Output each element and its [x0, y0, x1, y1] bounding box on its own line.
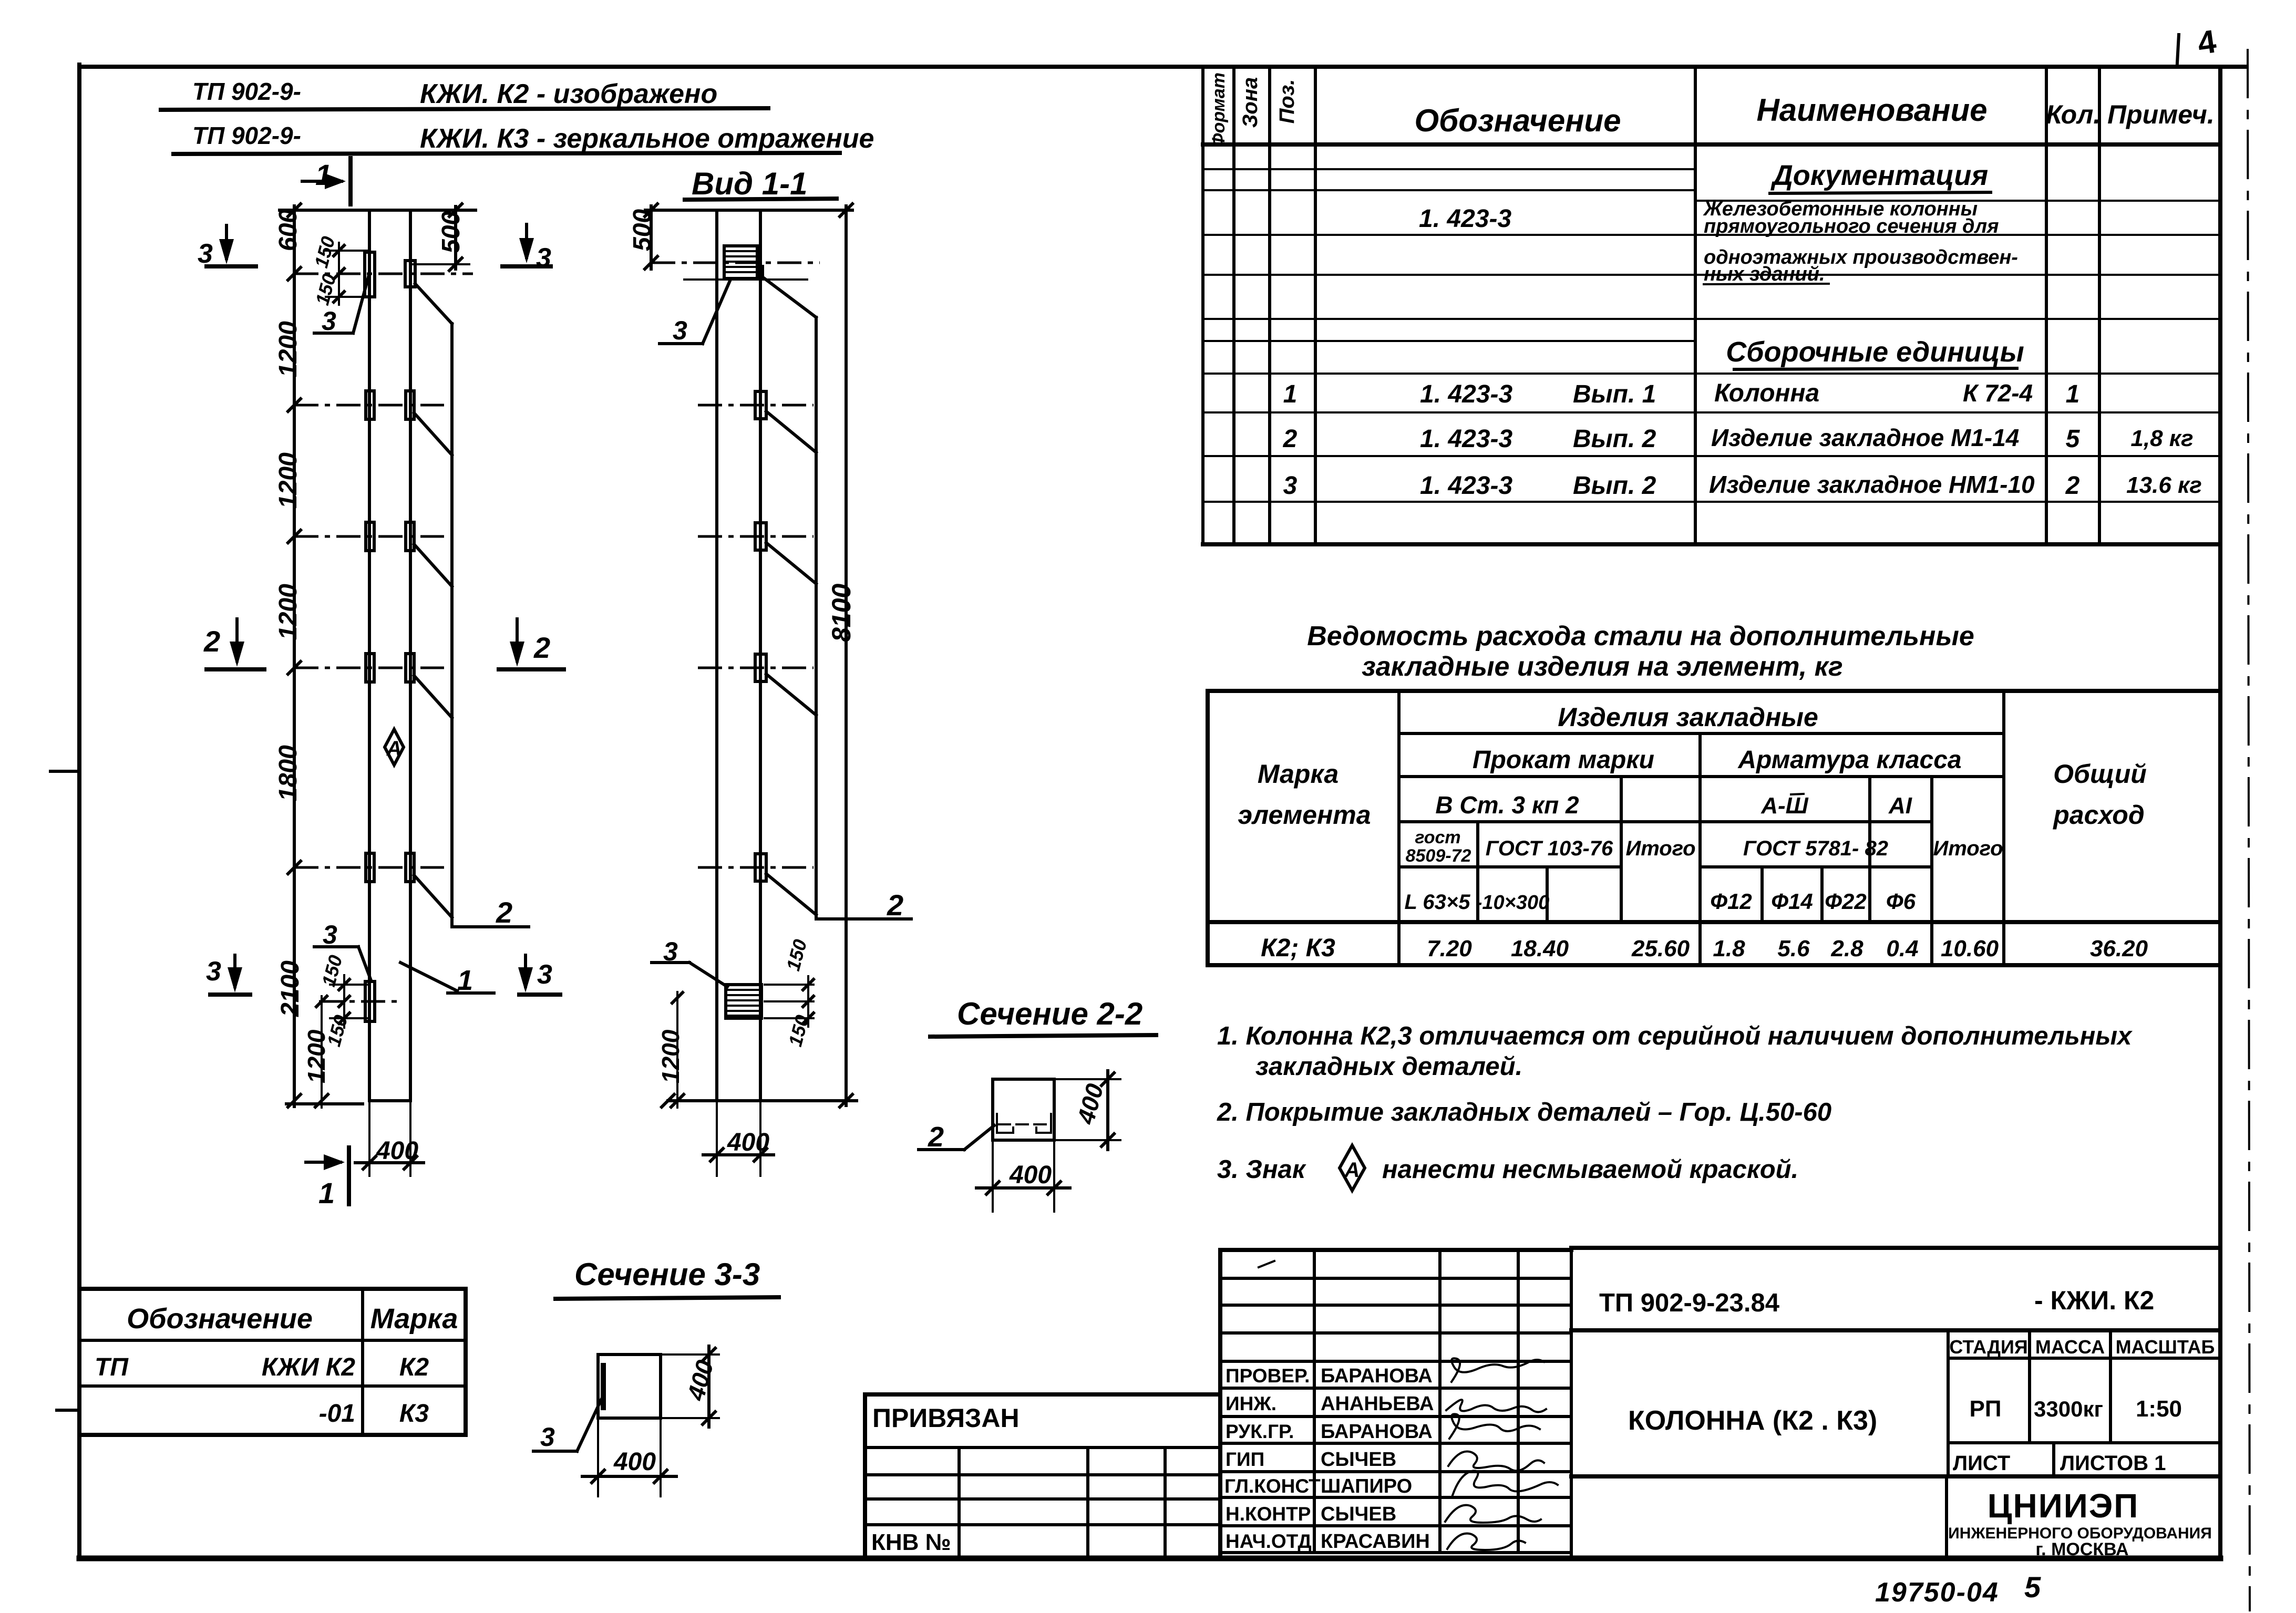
level line 1021 — [294, 535, 444, 538]
svg-text:ТП: ТП — [95, 1353, 129, 1381]
svg-text:400: 400 — [613, 1448, 656, 1476]
bottom dim line view2 — [668, 1099, 857, 1102]
svg-text:МАССА: МАССА — [2035, 1336, 2105, 1358]
400 dim view2 — [716, 1103, 718, 1176]
mid plates at 1271 — [366, 654, 374, 682]
signatures squiggles — [1445, 1358, 1558, 1550]
svg-text:1200: 1200 — [303, 1029, 330, 1083]
svg-text:18.40: 18.40 — [1511, 936, 1569, 961]
spec header bottom — [1203, 142, 2220, 147]
svg-text:Общий: Общий — [2053, 759, 2147, 789]
svg-text:5: 5 — [2024, 1570, 2041, 1604]
svg-text:ПРИВЯЗАН: ПРИВЯЗАН — [872, 1403, 1020, 1433]
svg-text:КОЛОННА (К2 . К3): КОЛОННА (К2 . К3) — [1628, 1405, 1877, 1436]
svg-text:КЖИ К2: КЖИ К2 — [262, 1353, 355, 1381]
privyazan grid horizontals — [865, 1475, 1220, 1525]
svg-text:10.60: 10.60 — [1941, 936, 1999, 961]
svg-text:Обозначение: Обозначение — [127, 1303, 313, 1335]
svg-text:СЫЧЕВ: СЫЧЕВ — [1321, 1503, 1396, 1525]
embedded plate top-left M1-14 — [365, 252, 375, 297]
svg-text:Ведомость расхода стали на: Ведомость расхода стали на дополнительны… — [1307, 621, 1974, 652]
section 2-2 square — [993, 1079, 1054, 1140]
svg-text:В Ст. 3 кп 2: В Ст. 3 кп 2 — [1435, 791, 1579, 819]
level line 1651 — [294, 866, 444, 869]
svg-text:3: 3 — [206, 956, 221, 987]
svg-text:элемента: элемента — [1238, 800, 1371, 830]
svg-text:ТП 902-9-23.84: ТП 902-9-23.84 — [1599, 1289, 1779, 1317]
bottom 400 dim sec2 — [992, 1142, 994, 1212]
svg-text:Обозначение: Обозначение — [1414, 103, 1621, 138]
right 500 dim line — [454, 206, 457, 269]
mid plates left col at 771 — [366, 391, 374, 419]
svg-text:АІ: АІ — [1888, 793, 1912, 819]
mid plates at 1651 — [366, 853, 374, 882]
svg-text:МАСШТАБ: МАСШТАБ — [2116, 1336, 2215, 1358]
svg-text:8100: 8100 — [827, 584, 856, 642]
svg-text:500: 500 — [437, 211, 465, 253]
dim 1200 bottom chain — [321, 996, 323, 1108]
svg-text:КРАСАВИН: КРАСАВИН — [1321, 1531, 1430, 1553]
svg-text:ЛИСТОВ 1: ЛИСТОВ 1 — [2060, 1452, 2166, 1475]
svg-text:600: 600 — [274, 209, 302, 251]
svg-text:СЫЧЕВ: СЫЧЕВ — [1321, 1449, 1396, 1471]
svg-text:Документация: Документация — [1770, 160, 1988, 191]
roles and names — [1224, 1365, 1434, 1553]
level line 500 — [651, 262, 820, 264]
svg-text:ПРОВЕР.: ПРОВЕР. — [1226, 1365, 1310, 1387]
bottom short dim line — [286, 1102, 363, 1105]
mid plate 771 — [755, 391, 766, 419]
column K2 body — [369, 210, 410, 1101]
section 3-3 underline — [555, 1297, 779, 1299]
signature rows — [1220, 1278, 1571, 1553]
svg-text:Вып. 2: Вып. 2 — [1573, 472, 1656, 500]
svg-text:1. 423-3: 1. 423-3 — [1420, 380, 1512, 408]
svg-text:РУК.ГР.: РУК.ГР. — [1226, 1421, 1294, 1442]
right 400 dim sec2 — [1056, 1078, 1120, 1080]
header underline 1 — [161, 108, 768, 110]
svg-text:Итого: Итого — [1625, 837, 1695, 860]
svg-text:БАРАНОВА: БАРАНОВА — [1321, 1365, 1433, 1387]
stadia block — [1948, 1330, 2220, 1476]
svg-text:ИНЖ.: ИНЖ. — [1226, 1393, 1276, 1414]
svg-text:ТП 902-9-: ТП 902-9- — [192, 78, 301, 105]
level line 1271 — [294, 667, 444, 669]
level line 521 — [294, 273, 473, 275]
centering mark left lower — [57, 1409, 79, 1412]
svg-text:2.8: 2.8 — [1830, 936, 1863, 961]
channel right leg — [1036, 1114, 1051, 1133]
150/150 chain view2 — [807, 976, 809, 1027]
mid plate 1651 — [755, 854, 766, 881]
svg-text:1: 1 — [318, 1176, 335, 1209]
signature table — [1220, 1250, 1571, 1558]
svg-text:1. Колонна К2,3 отличается: 1. Колонна К2,3 отличается от серийной н… — [1217, 1022, 2133, 1050]
top extension line — [645, 209, 852, 212]
svg-text:3300кг: 3300кг — [2034, 1397, 2103, 1421]
leader line from top-right plate — [415, 284, 452, 324]
hatched plate top NM1-10 — [724, 246, 763, 280]
bottom bracket plate — [365, 981, 375, 1021]
svg-text:0.4: 0.4 — [1886, 936, 1918, 961]
svg-text:- КЖИ. К2: - КЖИ. К2 — [2034, 1286, 2154, 1315]
svg-text:К3: К3 — [399, 1400, 429, 1428]
svg-text:3: 3 — [1283, 472, 1298, 500]
frame top border — [79, 65, 2246, 69]
centering mark left upper — [50, 770, 79, 773]
svg-text:500: 500 — [629, 209, 656, 251]
embedded plate top-right — [405, 261, 415, 287]
svg-text:2: 2 — [2065, 472, 2080, 500]
svg-text:2. Покрытие закладных детал: 2. Покрытие закладных деталей – Гор. Ц.5… — [1217, 1098, 1831, 1126]
mid plate 1021 — [755, 523, 766, 550]
tick in first row — [1259, 1261, 1274, 1267]
svg-text:ГИП: ГИП — [1226, 1449, 1264, 1470]
svg-text:-01: -01 — [319, 1400, 355, 1428]
svg-text:Сборочные единицы: Сборочные единицы — [1726, 336, 2024, 368]
svg-text:Н.КОНТР: Н.КОНТР — [1226, 1503, 1311, 1525]
svg-text:1. 423-3: 1. 423-3 — [1420, 425, 1512, 453]
section 2-2 underline — [930, 1035, 1156, 1037]
svg-text:1200: 1200 — [657, 1029, 684, 1083]
channel left leg — [997, 1114, 1013, 1133]
svg-text:Марка: Марка — [370, 1303, 458, 1335]
svg-text:1800: 1800 — [274, 745, 302, 801]
cniiep block — [1945, 1476, 1948, 1558]
svg-text:КЖИ. К3 - зеркальное отражен: КЖИ. К3 - зеркальное отражение — [420, 123, 874, 154]
150/150 top dim chain — [338, 243, 340, 305]
top-left header — [161, 78, 874, 154]
embedded plate edge view — [601, 1363, 606, 1410]
8100 dim line — [845, 206, 848, 1105]
signature verticals — [1314, 1248, 1571, 1558]
svg-text:ГОСТ 103-76: ГОСТ 103-76 — [1486, 837, 1613, 860]
svg-text:25.60: 25.60 — [1631, 936, 1690, 961]
tick near page number — [2177, 35, 2179, 63]
svg-text:Сечение 3-3: Сечение 3-3 — [574, 1257, 760, 1292]
svg-text:Зона: Зона — [1239, 77, 1262, 128]
privyazan grid verticals — [959, 1447, 1165, 1558]
spec row lines — [1203, 169, 2220, 502]
svg-text:2: 2 — [533, 631, 550, 664]
svg-text:Вып. 2: Вып. 2 — [1573, 425, 1656, 453]
svg-text:1200: 1200 — [274, 584, 302, 640]
svg-text:Кол.: Кол. — [2046, 100, 2101, 129]
svg-text:1. 423-3: 1. 423-3 — [1420, 472, 1512, 500]
svg-text:Арматура класса: Арматура класса — [1737, 746, 1961, 774]
svg-text:3: 3 — [540, 1422, 555, 1452]
svg-text:7.20: 7.20 — [1427, 936, 1472, 961]
svg-text:3: 3 — [536, 243, 551, 273]
svg-text:Изделие закладное НМ1-10: Изделие закладное НМ1-10 — [1709, 471, 2035, 498]
svg-text:36.20: 36.20 — [2090, 936, 2148, 961]
svg-text:Колонна: Колонна — [1714, 379, 1819, 407]
steel table outer — [1208, 691, 2220, 965]
500 dim line left — [650, 206, 653, 269]
svg-text:ных зданий.: ных зданий. — [1704, 263, 1825, 285]
svg-text:А: А — [1344, 1159, 1360, 1182]
section 3-3 square — [598, 1354, 661, 1418]
svg-text:АНАНЬЕВА: АНАНЬЕВА — [1321, 1393, 1434, 1415]
svg-text:закладные изделия на элемен: закладные изделия на элемент, кг — [1362, 652, 1843, 682]
view 1-1 underline — [685, 199, 837, 200]
channel profile dashed — [998, 1123, 1047, 1125]
section markers around column K2 — [198, 158, 564, 1209]
privyazan block outer — [865, 1394, 1220, 1558]
svg-text:2: 2 — [496, 896, 512, 929]
bottom 400 dim sec3 — [597, 1420, 599, 1496]
right 400 dim sec3 — [663, 1353, 719, 1356]
level line 771 — [294, 404, 444, 407]
svg-text:А-Ш: А-Ш — [1760, 793, 1808, 819]
steel horizontals — [1399, 733, 2004, 867]
leader vertical line to mark 2 — [450, 324, 454, 927]
svg-text:нанести несмываемой краской.: нанести несмываемой краской. — [1382, 1155, 1798, 1184]
svg-text:3: 3 — [323, 920, 337, 949]
header underline 2 — [173, 153, 840, 154]
svg-text:Вид 1-1: Вид 1-1 — [692, 166, 807, 201]
svg-text:Итого: Итого — [1933, 837, 2003, 860]
svg-text:1.8: 1.8 — [1713, 936, 1745, 961]
svg-text:400: 400 — [1009, 1161, 1052, 1189]
short line under plate — [684, 278, 807, 281]
svg-text:1: 1 — [2066, 380, 2080, 408]
svg-text:2100: 2100 — [276, 960, 304, 1017]
svg-text:РП: РП — [1970, 1396, 2002, 1422]
svg-text:1:50: 1:50 — [2136, 1396, 2182, 1422]
svg-text:1200: 1200 — [274, 452, 302, 509]
svg-text:2: 2 — [203, 625, 220, 658]
chain ticks — [288, 204, 301, 1107]
svg-text:Сечение 2-2: Сечение 2-2 — [957, 996, 1142, 1031]
svg-text:Ф6: Ф6 — [1886, 889, 1916, 914]
svg-text:расход: расход — [2052, 800, 2145, 830]
spec bottom line — [1203, 542, 2220, 546]
svg-text:ГОСТ 5781- 82: ГОСТ 5781- 82 — [1743, 837, 1888, 860]
svg-text:8509-72: 8509-72 — [1406, 846, 1471, 866]
svg-text:г. МОСКВА: г. МОСКВА — [2035, 1539, 2128, 1559]
level line bottom 1906 — [319, 1000, 402, 1003]
svg-text:400: 400 — [376, 1137, 418, 1165]
frame left border — [77, 65, 81, 1558]
svg-text:БАРАНОВА: БАРАНОВА — [1321, 1421, 1433, 1443]
svg-text:400: 400 — [727, 1129, 769, 1156]
quality mark rhombus A — [385, 729, 404, 765]
hatched plate bottom NM1-10 — [726, 985, 761, 1018]
svg-text:2: 2 — [1283, 425, 1298, 453]
leader 1 — [400, 963, 457, 991]
svg-text:5: 5 — [2066, 425, 2081, 453]
svg-text:3: 3 — [322, 306, 336, 336]
thick line above data row — [1208, 920, 2220, 924]
svg-text:-10×300: -10×300 — [1476, 892, 1550, 914]
400 dim line — [355, 1161, 424, 1164]
steel verticals — [1399, 691, 2004, 965]
left dimension chain line — [293, 206, 296, 1107]
svg-text:1200: 1200 — [274, 321, 302, 377]
top extension line over column — [280, 209, 476, 212]
svg-text:1,8 кг: 1,8 кг — [2130, 426, 2193, 451]
column K2 bottom details — [286, 920, 494, 1176]
svg-text:3: 3 — [673, 316, 687, 345]
svg-text:НАЧ.ОТД: НАЧ.ОТД — [1226, 1531, 1312, 1552]
svg-text:Прокат марки: Прокат марки — [1473, 746, 1654, 774]
svg-text:КЖИ. К2 - изображено: КЖИ. К2 - изображено — [420, 79, 717, 109]
note 3 rhombus A — [1340, 1145, 1365, 1191]
svg-text:L 63×5: L 63×5 — [1405, 891, 1471, 914]
frame bottom border — [79, 1556, 2220, 1562]
mark 2 leader horizontal — [452, 925, 529, 928]
svg-text:ГЛ.КОНСТ: ГЛ.КОНСТ — [1224, 1475, 1321, 1497]
mark table rows — [79, 1340, 466, 1386]
paper right edge line — [2248, 50, 2250, 1610]
1200 dim view2 — [676, 992, 678, 1108]
svg-text:ЦНИИЭП: ЦНИИЭП — [1988, 1487, 2139, 1525]
svg-text:А: А — [386, 737, 402, 760]
svg-text:ЛИСТ: ЛИСТ — [1953, 1452, 2010, 1475]
svg-text:ТП 902-9-: ТП 902-9- — [192, 122, 301, 149]
svg-text:КНВ №: КНВ № — [871, 1529, 951, 1555]
main title block right part — [1571, 1248, 2220, 1476]
svg-text:Ф14: Ф14 — [1771, 889, 1813, 914]
svg-text:Изделия закладные: Изделия закладные — [1558, 702, 1818, 732]
frame right border — [2218, 67, 2222, 1558]
svg-text:Изделие закладное М1-14: Изделие закладное М1-14 — [1711, 424, 2019, 451]
svg-text:Ф12: Ф12 — [1710, 889, 1752, 914]
svg-text:1: 1 — [1283, 380, 1298, 408]
svg-text:ШАПИРО: ШАПИРО — [1321, 1475, 1412, 1497]
svg-text:3: 3 — [537, 959, 552, 990]
leader from plate to mark 2 line — [763, 277, 816, 317]
svg-text:К2; К3: К2; К3 — [1261, 934, 1335, 962]
svg-text:прямоугольного сечения для: прямоугольного сечения для — [1704, 215, 1999, 237]
svg-text:2: 2 — [887, 888, 903, 922]
svg-text:закладных деталей.: закладных деталей. — [1255, 1052, 1522, 1081]
svg-text:3. Знак: 3. Знак — [1217, 1155, 1306, 1184]
column body view 1-1 — [717, 210, 760, 1101]
500 ticks — [449, 204, 462, 271]
svg-text:Формат: Формат — [1209, 73, 1229, 147]
svg-text:Вып. 1: Вып. 1 — [1573, 380, 1656, 408]
svg-text:Ф22: Ф22 — [1825, 889, 1867, 914]
svg-text:Примеч.: Примеч. — [2107, 100, 2215, 129]
mark table verticals — [361, 1289, 364, 1435]
svg-text:Поз.: Поз. — [1275, 79, 1299, 124]
svg-text:Наименование: Наименование — [1756, 92, 1987, 128]
svg-text:СТАДИЯ: СТАДИЯ — [1949, 1336, 2028, 1358]
150/150 bottom chain — [343, 975, 345, 1028]
extension lines at bottom plate — [765, 984, 814, 986]
400 dim extensions — [368, 1103, 370, 1176]
spec verticals — [1203, 67, 2099, 544]
svg-text:1: 1 — [457, 965, 473, 996]
svg-text:К2: К2 — [399, 1353, 429, 1381]
svg-text:5.6: 5.6 — [1777, 936, 1810, 961]
svg-text:1. 423-3: 1. 423-3 — [1419, 205, 1511, 233]
mid plates at 1021 — [366, 522, 374, 551]
mid plate 1271 — [755, 654, 766, 681]
privyazan row line — [865, 1446, 1220, 1449]
svg-text:13.6 кг: 13.6 кг — [2126, 472, 2202, 498]
svg-text:К 72-4: К 72-4 — [1963, 379, 2033, 407]
svg-text:19750-04: 19750-04 — [1875, 1577, 1999, 1608]
svg-text:Марка: Марка — [1258, 759, 1339, 789]
svg-text:гост: гост — [1415, 828, 1460, 847]
